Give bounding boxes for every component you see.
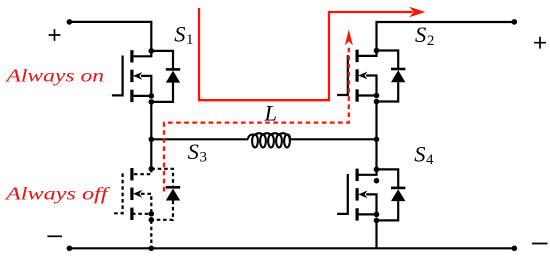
svg-text:L: L [264, 101, 278, 126]
wire: S2 drain riser and top-right rail to Vout+ [377, 22, 515, 51]
S2 gate [337, 55, 348, 95]
wire: bottom rail [69, 247, 514, 249]
S1 drain contact [132, 51, 151, 56]
S3 junction dots [149, 166, 155, 172]
S2 junction dots [374, 48, 380, 54]
svg-text:S3: S3 [188, 139, 207, 166]
wire: right midpoint to S4 drain [375, 139, 377, 169]
wire: mid wire left segment to inductor [151, 138, 248, 140]
transistor S4 (n-MOSFET) [337, 167, 405, 224]
wire: S1 source to mid node to S3 drain [150, 102, 152, 169]
S4 junction dots [374, 167, 380, 173]
S3 gate [112, 173, 123, 213]
node: left midpoint junction dot [149, 137, 155, 143]
terminal label + (input positive) [49, 29, 61, 41]
node: Vout- terminal dot [512, 246, 518, 252]
body diode of S3 [151, 169, 173, 187]
S4 bulk contact and arrow [356, 188, 359, 200]
S4 gate [337, 174, 348, 214]
wire: S2 source to right midpoint [375, 102, 377, 140]
S3 bulk contact and arrow [130, 188, 133, 200]
terminal label - (input negative) [47, 235, 62, 237]
wire: S4 source to bottom rail [375, 221, 377, 249]
transistor S2 (n-MOSFET) [337, 48, 405, 105]
S4 drain contact [357, 169, 376, 174]
S1 bulk contact and arrow [130, 70, 133, 82]
svg-text:Always on: Always on [5, 65, 104, 85]
transistor S1 (n-MOSFET) [112, 48, 180, 105]
body diode of S1 [151, 51, 173, 69]
S1 junction dots [149, 48, 155, 54]
svg-text:Always off: Always off [5, 183, 112, 203]
wire: S3 source to bottom rail (dashed) [150, 220, 152, 248]
svg-text:S4: S4 [414, 141, 434, 168]
node: bottom rail junction dot at S3 leg [149, 246, 155, 252]
node: Vin- terminal dot [67, 246, 73, 252]
S3 drain contact [132, 169, 151, 174]
red solid current path (buck loop) with arrow [199, 7, 425, 100]
terminal label - (output negative) [532, 243, 548, 245]
node: right midpoint junction dot [374, 137, 380, 143]
inductor L (cute coil) [248, 133, 290, 147]
wire: mid wire right segment from inductor to right leg [290, 138, 377, 140]
svg-text:S2: S2 [415, 22, 434, 49]
S3 source contact [130, 208, 133, 220]
S4 source contact [356, 208, 359, 220]
S2 drain contact [357, 51, 376, 56]
wire: top-left rail from Vin+ to S1 drain riser [69, 22, 151, 51]
S1 gate [112, 56, 123, 96]
node: Vin+ terminal dot [67, 19, 73, 25]
S1 source contact [130, 90, 133, 102]
body diode of S2 [377, 51, 399, 69]
red dashed current path (freewheel loop) with arrow [164, 29, 353, 191]
transistor S3 (n-MOSFET , dashed) [112, 166, 180, 223]
terminal label + (output positive) [534, 37, 546, 49]
S2 source contact [356, 89, 359, 101]
svg-text:S1: S1 [174, 21, 193, 48]
S2 bulk contact and arrow [356, 69, 359, 81]
node: Vout+ terminal dot [512, 19, 518, 25]
body diode of S4 [377, 169, 399, 187]
